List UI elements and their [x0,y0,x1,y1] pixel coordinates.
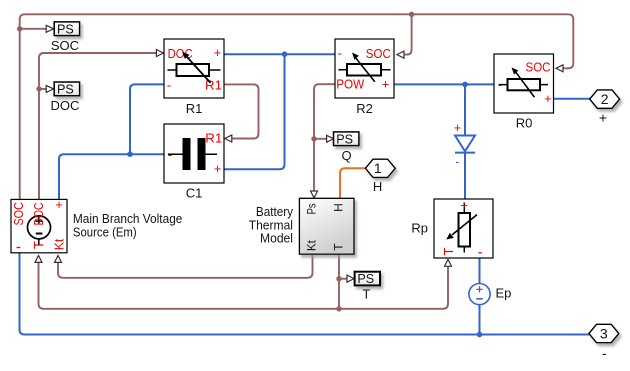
svg-text:SOC: SOC [526,60,551,75]
svg-text:+: + [544,91,552,106]
svg-text:T: T [332,243,346,251]
svg-text:Ps: Ps [305,203,319,214]
svg-text:-: - [167,77,171,92]
svg-text:+: + [214,45,222,60]
svg-text:R1: R1 [186,101,203,116]
svg-text:Kt: Kt [305,240,319,251]
svg-text:+: + [382,77,390,92]
svg-text:SOC: SOC [11,202,26,226]
svg-text:1: 1 [374,160,382,176]
svg-text:H: H [332,203,346,212]
svg-text:3: 3 [600,325,608,341]
svg-text:-: - [168,147,172,162]
svg-text:R1: R1 [205,131,222,146]
svg-text:T: T [441,247,456,255]
svg-text:+: + [214,161,222,176]
svg-text:Ep: Ep [496,286,512,301]
svg-text:POW: POW [336,77,365,92]
svg-text:R2: R2 [356,101,373,116]
svg-text:Source (Em): Source (Em) [73,225,137,240]
svg-text:PS: PS [336,132,353,146]
svg-text:+: + [599,110,607,126]
svg-text:SOC: SOC [366,46,391,61]
svg-text:-: - [498,77,502,92]
svg-text:Kt: Kt [51,238,66,250]
svg-text:Model: Model [260,231,293,246]
svg-text:PS: PS [357,272,374,286]
svg-text:DOC: DOC [51,98,80,113]
svg-text:T: T [362,287,370,302]
svg-text:+: + [454,121,461,135]
svg-text:Rp: Rp [411,221,428,236]
svg-text:DOC: DOC [31,203,46,226]
svg-text:R0: R0 [516,115,533,130]
svg-text:+: + [55,197,63,212]
svg-text:+: + [460,197,468,212]
svg-text:PS: PS [57,22,74,36]
svg-text:PS: PS [57,82,74,96]
svg-text:-: - [338,46,342,61]
svg-text:-: - [602,345,607,361]
svg-text:2: 2 [601,91,609,107]
svg-text:SOC: SOC [51,38,79,53]
svg-text:C1: C1 [186,185,203,200]
svg-text:T: T [31,241,46,249]
svg-text:H: H [373,179,382,194]
svg-text:Q: Q [341,148,351,163]
